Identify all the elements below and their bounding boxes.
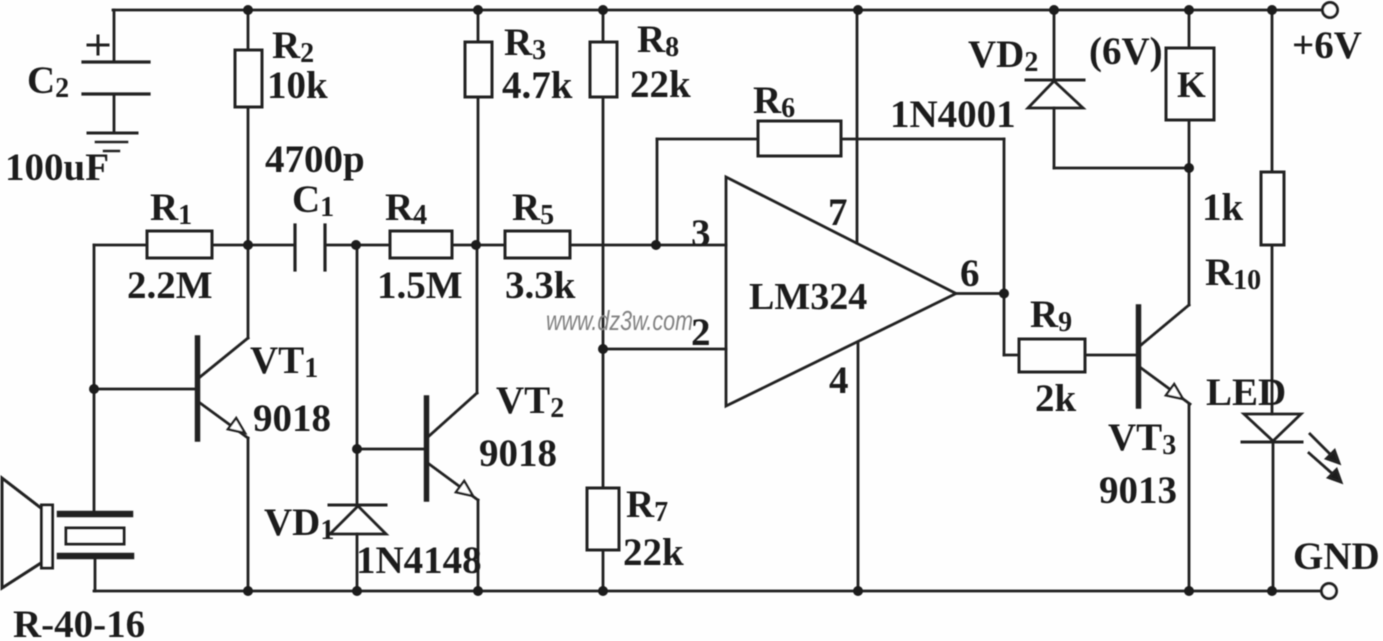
wire R9 to VT3 base (1085, 354, 1136, 357)
wire left branch vertical (93, 245, 96, 512)
transistor VT1 (198, 338, 249, 439)
wire R2 bottom lead (247, 107, 250, 245)
wire node C1-R4 down to VD1 (356, 245, 359, 505)
svg-text:3.3k: 3.3k (505, 264, 576, 307)
wire R3 top lead (477, 10, 480, 42)
svg-text:1N4148: 1N4148 (356, 539, 482, 582)
svg-text:+6V: +6V (1292, 24, 1362, 67)
svg-text:4.7k: 4.7k (502, 64, 573, 107)
wire feedback to R6 (657, 138, 758, 141)
resistor R8 (590, 42, 617, 97)
svg-text:(6V): (6V) (1089, 30, 1163, 73)
diode VD2 (1026, 80, 1084, 108)
wire R8 bottom lead (602, 97, 605, 349)
wire VD1 bottom lead (356, 534, 359, 591)
node 2 (598, 344, 608, 354)
wire VT2 collector vertical (476, 245, 479, 393)
wire transducer bottom lead (94, 559, 97, 591)
resistor R7 (587, 488, 619, 550)
node top rail R2 (243, 5, 253, 15)
svg-text:6: 6 (960, 252, 980, 295)
node 6 (999, 289, 1009, 299)
wire R3 bottom lead (477, 97, 480, 245)
wire node 3 feedback up (656, 139, 659, 245)
wire R5 right lead to pin 3 (570, 244, 726, 247)
resistor R6 (758, 121, 841, 156)
wire R10 top lead (1271, 10, 1274, 172)
svg-text:www.dz3w.com: www.dz3w.com (546, 305, 693, 336)
capacitor C1 (295, 225, 325, 270)
wire R6 right to node 6 (841, 138, 1004, 141)
wire pin 7 (856, 10, 859, 243)
wire R8 top lead (602, 10, 605, 42)
svg-text:9018: 9018 (479, 432, 557, 475)
wire K bottom lead (1188, 120, 1191, 168)
wire VT1 emitter down (247, 438, 250, 591)
wire to R9 (1004, 354, 1019, 357)
node VT2 base VD1 (352, 444, 362, 454)
svg-text:9018: 9018 (253, 397, 331, 440)
wire VT3 emitter down (1188, 404, 1191, 591)
node VD2-K-VT3 (1184, 163, 1194, 173)
diode VD1 (329, 505, 386, 534)
node top rail K (1184, 5, 1194, 15)
terminal GND (1322, 584, 1337, 599)
node bottom rail VT2 (473, 586, 483, 596)
svg-text:9013: 9013 (1099, 469, 1177, 512)
node VT1 base (89, 384, 99, 394)
wire VD2 top lead (1053, 10, 1056, 80)
node bottom rail LED (1267, 586, 1277, 596)
svg-text:10k: 10k (267, 64, 328, 107)
svg-text:2k: 2k (1035, 377, 1077, 420)
resistor R1 (147, 231, 212, 258)
relay K (1166, 48, 1214, 120)
wire R7 bottom lead (602, 550, 605, 591)
wire pin 2 (603, 348, 726, 351)
svg-text:GND: GND (1293, 535, 1380, 578)
node bottom rail pin4 (853, 586, 863, 596)
wire op-amp output pin 6 (956, 292, 1004, 295)
node bottom rail VT3 (1184, 586, 1194, 596)
svg-text:1N4001: 1N4001 (890, 93, 1016, 136)
svg-text:22k: 22k (623, 531, 684, 574)
node 3 (651, 240, 661, 250)
svg-text:R-40-16: R-40-16 (13, 603, 145, 641)
wire VT2 base (357, 448, 424, 451)
svg-text:4700p: 4700p (265, 138, 365, 181)
node C1-R4-VD1 (351, 240, 361, 250)
wire VT1 base (94, 388, 195, 391)
wire pin 4 (857, 342, 860, 591)
transistor VT2 (427, 393, 479, 500)
wire C2 bottom lead (113, 94, 116, 132)
node bottom rail R7 (598, 586, 608, 596)
wire VT2 emitter down (477, 500, 480, 591)
terminal +6V (1323, 3, 1338, 18)
wire feedback down to node 6 (1003, 139, 1006, 294)
resistor R4 (390, 231, 452, 258)
svg-text:22k: 22k (630, 63, 691, 106)
wire C1 right lead (325, 244, 356, 247)
svg-text:2.2M: 2.2M (127, 264, 213, 307)
wire R10 bottom lead (1271, 245, 1274, 414)
node top rail VD2 (1049, 5, 1059, 15)
wire C2 top lead (113, 10, 116, 62)
resistor R9 (1019, 339, 1085, 372)
svg-text:3: 3 (691, 212, 711, 255)
wire R7 top lead (602, 349, 605, 488)
wire LED bottom lead (1272, 442, 1275, 591)
node bottom rail VT1 (243, 586, 253, 596)
wire R4 right lead (452, 244, 476, 247)
node top rail R10 (1267, 5, 1277, 15)
node R1-R2-C1 (243, 240, 253, 250)
node top rail pin7 (853, 5, 863, 15)
op-amp U1 LM324 (726, 177, 956, 406)
resistor R2 (235, 50, 262, 107)
wire R2 top lead (247, 10, 250, 50)
svg-text:K: K (1177, 65, 1206, 106)
wire GND bottom rail (94, 590, 1321, 593)
wire node 6 down (1003, 294, 1006, 356)
svg-text:1k: 1k (1202, 186, 1244, 229)
node top rail R3 (473, 5, 483, 15)
svg-text:4: 4 (829, 359, 849, 402)
LED (1242, 414, 1341, 482)
wire VD2 bottom lead (1053, 108, 1056, 168)
resistor R3 (465, 42, 492, 97)
capacitor C2 (83, 36, 149, 94)
wire R5 left lead (476, 244, 505, 247)
wire +6V top rail (113, 9, 1322, 12)
svg-text:LM324: LM324 (749, 276, 867, 318)
node R3-R4-R5 (471, 240, 481, 250)
node bottom rail VD1 (352, 586, 362, 596)
svg-text:2: 2 (691, 311, 711, 354)
wire VT3 collector up (1188, 168, 1191, 305)
svg-text:7: 7 (828, 191, 848, 234)
wire VD2 to relay (1054, 167, 1189, 170)
wire R4 left lead (356, 244, 390, 247)
svg-text:LED: LED (1206, 371, 1286, 414)
wire R1 left lead (94, 244, 147, 247)
resistor R5 (505, 231, 570, 258)
transistor VT3 (1139, 305, 1191, 406)
wire R1 right lead (212, 244, 248, 247)
transducer B R-40-16 (2, 478, 131, 588)
node top rail R8 (598, 5, 608, 15)
svg-text:100uF: 100uF (5, 146, 109, 189)
svg-text:1.5M: 1.5M (377, 264, 463, 307)
wire C1 left lead (248, 244, 295, 247)
ground (88, 133, 137, 151)
resistor R10 (1261, 172, 1284, 245)
wire K top lead (1188, 10, 1191, 48)
wire VT1 collector up (247, 245, 250, 338)
